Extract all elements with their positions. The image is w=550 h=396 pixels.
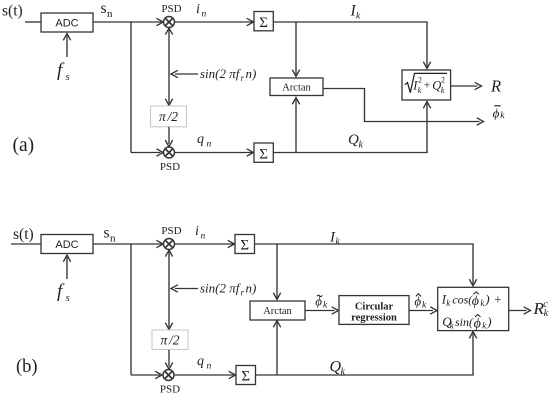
wire sin reference arrow (b) [171,285,198,292]
svg-text:s: s [66,71,70,83]
block ADC (a) [41,13,93,32]
mixer PSD2 (a) [164,147,175,158]
label R_k^c (b) [533,299,549,319]
svg-text:n: n [107,8,113,20]
wire mixer1 to summer1 (b) [175,240,235,247]
block Arctan (b) [250,301,305,320]
label q_n (b) [197,354,212,372]
node branch junction (b) [130,243,132,375]
svg-text:PSD: PSD [161,225,181,237]
mixer PSD1 (a) [164,17,175,28]
wire mixer2 to summer2 (a) [175,149,254,156]
svg-text:s: s [66,292,70,304]
svg-text:sin(2 πf: sin(2 πf [200,66,242,81]
svg-text:regression: regression [351,313,397,324]
label i_n (a) [196,2,207,20]
svg-text:ϕ: ϕ [472,294,479,309]
svg-text:/2: /2 [168,333,180,348]
wire mixer2 to summer2 (b) [175,371,236,378]
svg-text:k: k [356,12,361,22]
label (a) [13,135,35,156]
svg-text:q: q [197,354,204,369]
svg-text:cos(: cos( [452,293,473,307]
svg-text:(a): (a) [13,135,35,156]
node branch junction (a) [130,21,132,152]
svg-text:n): n) [246,66,257,81]
svg-text:R: R [490,77,501,96]
svg-text:k: k [422,300,427,310]
svg-text:n: n [110,232,116,244]
wire drop to Arctan top (b) [273,244,280,300]
svg-text:ϕ: ϕ [493,105,500,120]
wire f_s arrow into ADC (b) [63,255,70,279]
wire R_k^c output arrow (b) [509,307,531,314]
wire pi/2 to mixer PSD2 (b) [165,350,172,370]
svg-text:n: n [207,140,212,150]
svg-text:n: n [202,10,207,20]
svg-text:Σ: Σ [259,147,268,163]
svg-text:f: f [57,60,65,81]
block pi/2 (b) [152,330,188,350]
svg-text:): ) [486,314,491,329]
wire f_s arrow into ADC (a) [63,34,70,58]
label Q_k (a) [348,132,364,151]
svg-text:k: k [323,300,328,310]
svg-text:PSD: PSD [160,384,180,396]
wire mixer1 to pi/2 block (b) [165,250,172,330]
svg-text:k: k [341,366,346,377]
svg-text:(b): (b) [16,357,38,377]
label I_k (a) [350,3,362,22]
mixer PSD2 (b) [163,370,174,381]
svg-text:sin(2 πf: sin(2 πf [200,281,242,296]
summer block sigma2 (b) [236,366,256,385]
svg-text:r: r [241,288,245,298]
wire s(t) to ADC (b) [11,243,41,245]
svg-text:2: 2 [441,76,445,85]
svg-text:Arctan: Arctan [263,306,292,317]
label R (a) [490,77,501,96]
wire branch to mixer2 (a) [131,149,163,156]
svg-text:s: s [104,225,110,242]
svg-text:s: s [101,0,107,17]
wire Q_k line to sqrt block bottom (a) [273,102,430,153]
svg-text:PSD: PSD [161,3,181,15]
block pi/2 (a) [151,106,187,127]
svg-text:k: k [500,111,505,121]
svg-text:q: q [197,132,204,147]
wire s(t) to ADC (a) [25,21,41,23]
label PSD below mixer2 (a) [160,161,180,173]
svg-text:r: r [241,73,245,83]
svg-text:i: i [195,224,199,239]
label s_n (b) [104,225,117,245]
svg-text:k: k [359,140,364,151]
svg-text:+: + [424,80,431,92]
svg-text:i: i [196,2,200,17]
label sin(2 pi f_r n) (b) [200,281,256,298]
svg-text:ϕ: ϕ [474,316,481,331]
label phi-bar_k (a) [493,105,506,121]
wire mixer1 to summer1 (a) [175,18,254,25]
svg-text:Circular: Circular [355,301,394,312]
label s(t) input (a) [2,3,23,20]
label phi-tilde_k (b) [315,293,328,310]
wire Arctan to phi-bar output (a) [323,89,484,126]
wire drop to Arctan top (a) [292,22,299,77]
label phi-hat_k (b) [414,293,427,310]
label PSD above mixer1 (b) [161,225,181,237]
label PSD above mixer1 (a) [161,3,181,15]
svg-text:n): n) [246,281,257,296]
wire I_k line to result block top (b) [255,244,477,286]
block Arctan (a) [270,78,323,96]
block sqrt(I_k^2+Q_k^2) (a) [402,70,451,100]
svg-text:ADC: ADC [55,18,78,30]
svg-text:Q: Q [348,132,359,148]
svg-text:Σ: Σ [259,15,268,31]
wire rise to Arctan bottom (b) [273,321,280,376]
svg-text:k: k [441,85,445,95]
label s(t) input (b) [13,226,34,243]
wire Q_k line to result block bottom (b) [256,332,477,376]
block ADC (b) [41,235,93,254]
wire mixer1 to pi/2 block (a) [165,28,172,106]
label Q_k (b) [330,358,346,377]
svg-text:n: n [207,362,212,372]
block circular regression (b) [339,296,409,325]
wire rise to Arctan bottom (a) [292,98,299,153]
label (b) [16,357,38,377]
wire ADC to mixer PSD1 (b) [93,240,163,247]
wire pi/2 to mixer PSD2 (a) [165,127,172,147]
svg-text:s(t): s(t) [13,226,34,243]
svg-text:): ) [484,292,489,307]
summer block sigma1 (b) [235,235,255,254]
svg-text:s(t): s(t) [2,3,23,20]
wire ADC to mixer PSD1 (a) [93,18,163,25]
svg-text:k: k [544,308,549,319]
summer block sigma2 (a) [254,143,273,163]
label f_s (b) [57,281,70,304]
label i_n (b) [195,224,206,242]
svg-text:2: 2 [418,76,422,85]
wire Arctan to circular regression (b) [305,307,339,314]
svg-text:/2: /2 [167,109,179,124]
wire I_k line to sqrt block (a) [273,22,430,69]
svg-text:k: k [336,237,341,247]
svg-text:Arctan: Arctan [282,82,311,93]
svg-text:sin(: sin( [455,315,474,329]
svg-text:PSD: PSD [160,161,180,173]
label s_n (a) [101,0,114,20]
svg-text:ADC: ADC [55,239,78,251]
svg-text:+: + [493,291,502,306]
label q_n (a) [197,132,212,150]
wire branch to mixer2 (b) [131,371,162,378]
svg-text:k: k [418,85,422,95]
block I_k cos + Q_k sin result (b) [438,287,509,331]
label PSD below mixer2 (b) [160,384,180,396]
wire sin reference arrow (a) [171,70,198,77]
label I_k (b) [329,229,341,247]
wire R output arrow (a) [451,82,482,89]
wire circular regression to result block (b) [409,307,437,314]
svg-text:f: f [57,281,65,302]
mixer PSD1 (b) [164,239,175,250]
svg-text:Σ: Σ [240,238,249,254]
summer block sigma1 (a) [254,12,273,32]
label sin(2 pi f_r n) (a) [200,66,256,83]
svg-text:Σ: Σ [241,369,250,385]
svg-text:n: n [201,232,206,242]
label f_s (a) [57,60,70,83]
